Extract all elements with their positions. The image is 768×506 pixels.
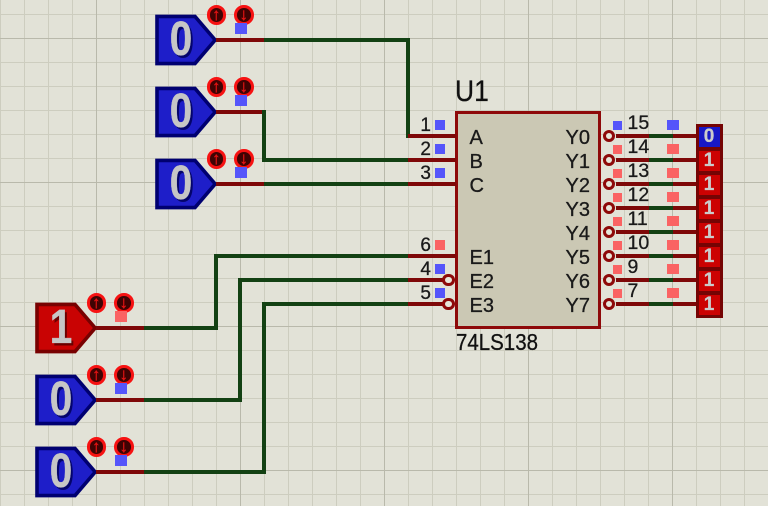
wire net E3 vertical bbox=[262, 302, 265, 473]
pin name Y5 bbox=[540, 248, 590, 268]
probe pin 6 stub and state square bbox=[665, 263, 697, 283]
wire Y3 to probe bbox=[649, 206, 673, 209]
pin 5 group (stub, number, state square, bubble) bbox=[395, 283, 456, 308]
pin stub of input IN-E3 bbox=[96, 470, 144, 474]
pin name Y1 bbox=[540, 152, 590, 172]
pin name Y4 bbox=[540, 224, 590, 244]
pin name Y7 bbox=[540, 296, 590, 316]
pin 10 (Y5) group: bubble, stub, number, state square bbox=[603, 235, 649, 260]
logic probe Y6 (shows 1) bbox=[696, 268, 723, 294]
logic state input IN-B (value 0) bbox=[152, 76, 256, 138]
wire Y6 to probe bbox=[649, 278, 673, 281]
wire net E3 horizontal upper bbox=[264, 302, 408, 305]
wire net A horizontal bbox=[264, 38, 408, 41]
logic state input IN-E3 (value 0) bbox=[32, 436, 136, 498]
probe pin 1 stub and state square bbox=[665, 143, 697, 163]
wire net E3 horizontal lower bbox=[144, 470, 264, 473]
IC U1 74LS138 body bbox=[455, 111, 601, 329]
pin 4 group (stub, number, state square, bubble) bbox=[395, 259, 456, 284]
pin stub of input IN-A bbox=[216, 38, 264, 42]
logic state input IN-E1 (value 1) bbox=[32, 292, 136, 354]
wire net B vertical bbox=[262, 110, 265, 161]
wire Y1 to probe bbox=[649, 158, 673, 161]
wire Y7 to probe bbox=[649, 302, 673, 305]
wire Y0 to probe bbox=[649, 134, 673, 137]
probe pin 4 stub and state square bbox=[665, 215, 697, 235]
wire net E2 horizontal upper bbox=[240, 278, 408, 281]
wire net B horizontal bbox=[264, 158, 408, 161]
pin name B bbox=[470, 152, 483, 172]
pin name E2 bbox=[470, 272, 494, 292]
pin 11 (Y4) group: bubble, stub, number, state square bbox=[603, 211, 649, 236]
pin name Y2 bbox=[540, 176, 590, 196]
label U1 bbox=[455, 77, 489, 107]
wire Y2 to probe bbox=[649, 182, 673, 185]
pin name E3 bbox=[470, 296, 494, 316]
pin stub of input IN-E2 bbox=[96, 398, 144, 402]
pin name Y0 bbox=[540, 128, 590, 148]
pin name Y3 bbox=[540, 200, 590, 220]
pin stub of input IN-B bbox=[216, 110, 264, 114]
probe pin 7 stub and state square bbox=[665, 287, 697, 307]
logic probe Y1 (shows 1) bbox=[696, 148, 723, 174]
logic probe Y0 (shows 0) bbox=[696, 124, 723, 150]
pin name E1 bbox=[470, 248, 494, 268]
label 74LS138 bbox=[456, 331, 538, 354]
pin 13 (Y2) group: bubble, stub, number, state square bbox=[603, 163, 649, 188]
wire Y5 to probe bbox=[649, 254, 673, 257]
probe pin 0 stub and state square bbox=[665, 119, 697, 139]
wire net E2 horizontal lower bbox=[144, 398, 240, 401]
wire net E1 horizontal lower bbox=[144, 326, 216, 329]
wire net E1 vertical bbox=[214, 254, 217, 329]
logic state input IN-E2 (value 0) bbox=[32, 364, 136, 426]
logic probe Y5 (shows 1) bbox=[696, 244, 723, 270]
wire net A vertical bbox=[406, 38, 409, 137]
pin 6 group (stub, number, state square) bbox=[395, 235, 456, 260]
pin name A bbox=[470, 128, 483, 148]
wire net C bbox=[264, 182, 408, 185]
logic probe Y2 (shows 1) bbox=[696, 172, 723, 198]
logic state input IN-A (value 0) bbox=[152, 4, 256, 66]
pin 15 (Y0) group: bubble, stub, number, state square bbox=[603, 115, 649, 140]
wire net E1 horizontal upper bbox=[216, 254, 408, 257]
pin 12 (Y3) group: bubble, stub, number, state square bbox=[603, 187, 649, 212]
wire Y4 to probe bbox=[649, 230, 673, 233]
logic probe Y4 (shows 1) bbox=[696, 220, 723, 246]
pin stub of input IN-E1 bbox=[96, 326, 144, 330]
wire net E2 vertical bbox=[238, 278, 241, 401]
logic probe Y3 (shows 1) bbox=[696, 196, 723, 222]
pin 14 (Y1) group: bubble, stub, number, state square bbox=[603, 139, 649, 164]
probe pin 3 stub and state square bbox=[665, 191, 697, 211]
probe pin 5 stub and state square bbox=[665, 239, 697, 259]
pin 1 group (stub, number, state square) bbox=[395, 115, 456, 140]
pin 9 (Y6) group: bubble, stub, number, state square bbox=[603, 259, 649, 284]
logic state input IN-C (value 0) bbox=[152, 148, 256, 210]
probe pin 2 stub and state square bbox=[665, 167, 697, 187]
pin 3 group (stub, number, state square) bbox=[395, 163, 456, 188]
pin name C bbox=[470, 176, 484, 196]
pin stub of input IN-C bbox=[216, 182, 264, 186]
pin 7 (Y7) group: bubble, stub, number, state square bbox=[603, 283, 649, 308]
pin 2 group (stub, number, state square) bbox=[395, 139, 456, 164]
logic probe Y7 (shows 1) bbox=[696, 292, 723, 318]
pin name Y6 bbox=[540, 272, 590, 292]
